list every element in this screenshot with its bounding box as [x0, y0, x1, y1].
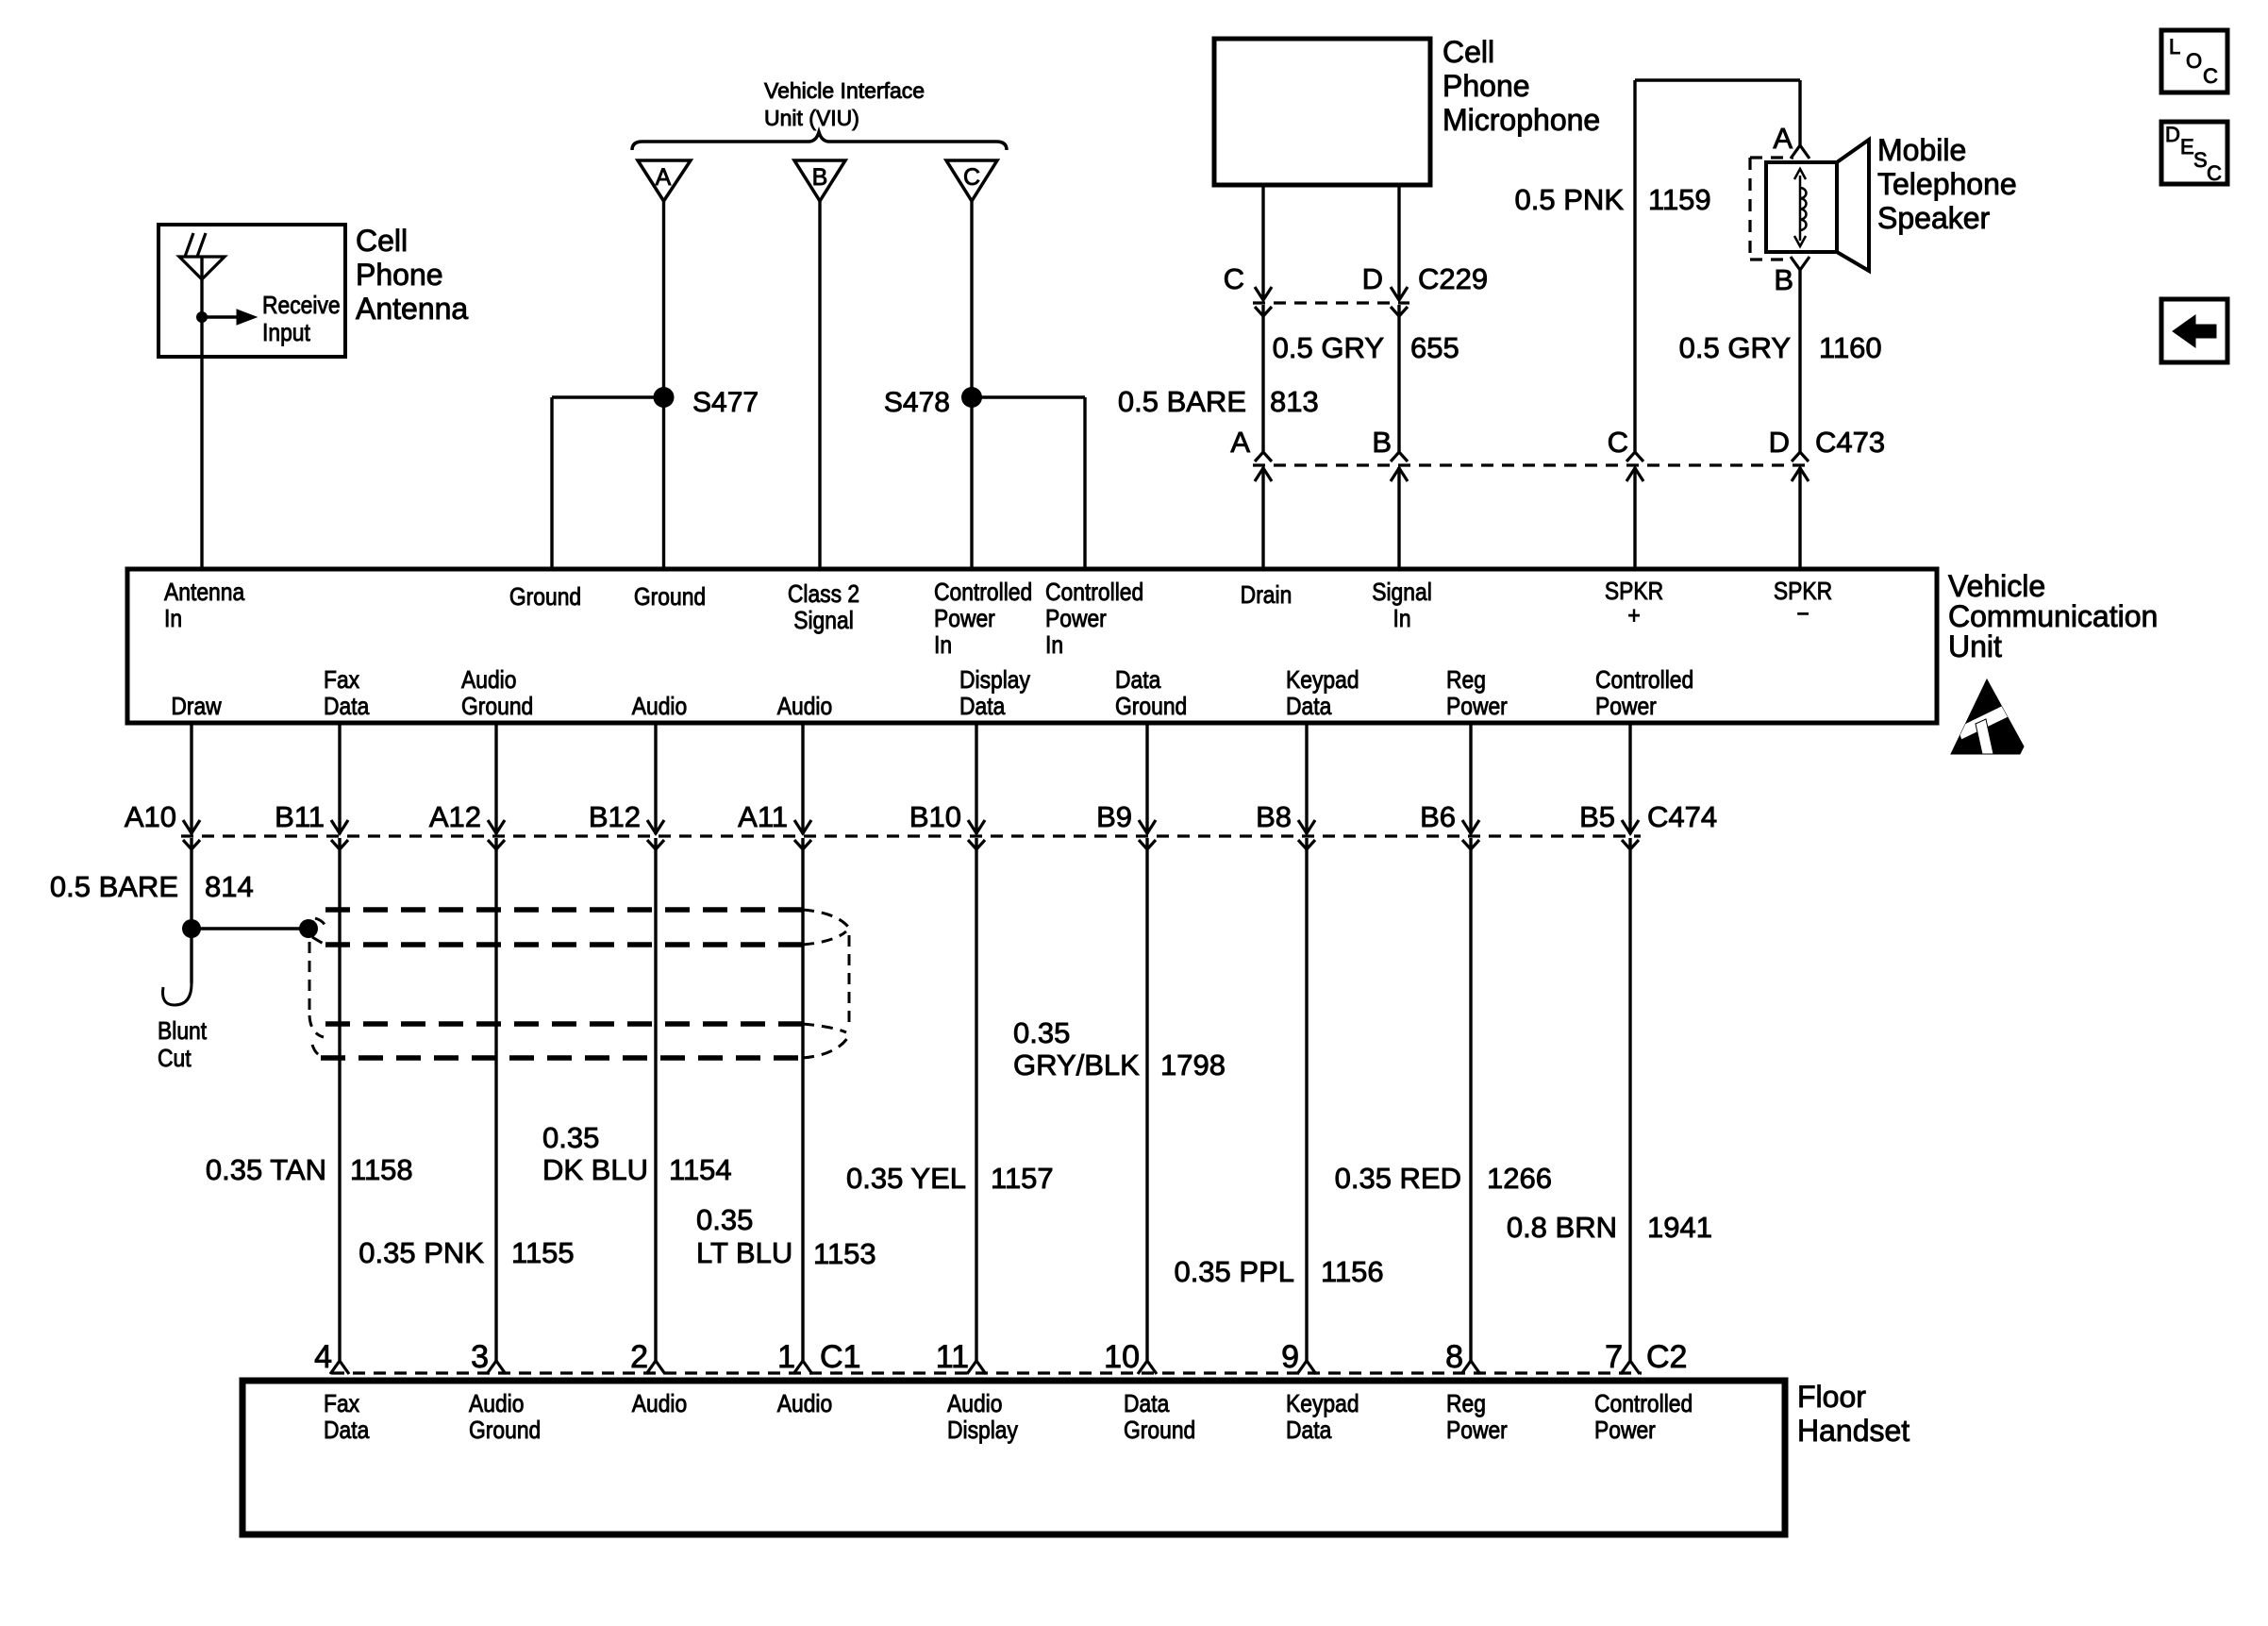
svg-text:Vehicle: Vehicle: [1948, 569, 2045, 603]
wire audio ground VCU to C474: [494, 723, 497, 834]
svg-text:0.35: 0.35: [696, 1203, 753, 1236]
svg-text:In: In: [1045, 632, 1063, 660]
back arrow box: [2161, 299, 2227, 362]
svg-text:0.35 TAN: 0.35 TAN: [206, 1153, 326, 1186]
wire triangle B to class 2 signal pin: [818, 201, 821, 569]
wire drain C473 to VCU: [1261, 467, 1264, 569]
wire drain to shield: [192, 927, 309, 930]
svg-text:1154: 1154: [669, 1153, 732, 1186]
speaker terminal A: [1791, 145, 1809, 159]
connector C229 dashed line: [1253, 301, 1409, 304]
wire data ground C474 to handset: [1145, 838, 1148, 1362]
svg-text:Antenna: Antenna: [164, 579, 245, 607]
svg-text:813: 813: [1270, 385, 1319, 418]
svg-text:0.5 BARE: 0.5 BARE: [50, 870, 178, 903]
wire audio 1 VCU to C474: [654, 723, 657, 834]
svg-text:2: 2: [630, 1339, 648, 1375]
svg-text:A: A: [656, 164, 672, 191]
svg-text:Ground: Ground: [461, 694, 533, 721]
svg-text:C: C: [2203, 64, 2218, 88]
svg-text:1156: 1156: [1321, 1255, 1384, 1288]
wire audio ground C474 to handset: [494, 838, 497, 1362]
svg-text:0.5 BARE: 0.5 BARE: [1118, 385, 1246, 418]
svg-text:0.35 PNK: 0.35 PNK: [359, 1236, 484, 1269]
svg-text:S: S: [2193, 148, 2208, 172]
connector C473 pin A arrows: [1255, 452, 1272, 461]
svg-text:Floor: Floor: [1797, 1380, 1866, 1414]
svg-text:0.5 GRY: 0.5 GRY: [1679, 331, 1791, 364]
svg-text:Data: Data: [1124, 1391, 1170, 1418]
svg-text:7: 7: [1605, 1339, 1623, 1375]
svg-text:B9: B9: [1096, 800, 1132, 833]
svg-text:Audio: Audio: [777, 1391, 832, 1418]
wire antenna to VCU: [200, 357, 203, 569]
svg-text:C: C: [2207, 161, 2222, 185]
svg-text:Ground: Ground: [634, 584, 706, 612]
wire speaker B to C473: [1798, 269, 1801, 452]
svg-text:655: 655: [1410, 331, 1459, 364]
svg-text:8: 8: [1445, 1339, 1463, 1375]
svg-text:In: In: [934, 632, 952, 660]
wire audio 2 C474 to handset: [801, 838, 804, 1362]
wire controlled power VCU to C474: [1628, 723, 1631, 834]
svg-text:C2: C2: [1646, 1339, 1687, 1375]
svg-text:Power: Power: [1045, 606, 1107, 633]
svg-text:In: In: [1392, 606, 1410, 633]
svg-text:A: A: [1773, 122, 1793, 155]
svg-text:Telephone: Telephone: [1877, 167, 2017, 201]
svg-text:C: C: [1608, 426, 1628, 459]
svg-text:4: 4: [314, 1339, 332, 1375]
connector C474 dashed line: [181, 834, 1641, 837]
handset terminal pin 10: [1138, 1361, 1157, 1374]
svg-text:Drain: Drain: [1241, 582, 1292, 610]
wire S477 branch: [552, 395, 664, 398]
svg-text:C474: C474: [1647, 800, 1717, 833]
splice node on drain wire: [182, 919, 201, 938]
svg-text:Data: Data: [324, 1417, 370, 1445]
wire spkr- C473 to VCU: [1798, 467, 1801, 569]
svg-text:Fax: Fax: [324, 667, 359, 695]
shield tube left end: [315, 918, 326, 929]
svg-text:S478: S478: [884, 387, 950, 418]
connector C474 pin A11 arrows: [794, 820, 811, 833]
svg-text:Reg: Reg: [1446, 1391, 1486, 1418]
svg-text:Data: Data: [1286, 694, 1332, 721]
svg-text:Antenna: Antenna: [356, 292, 468, 326]
wire triangle C to controlled power pins: [970, 201, 973, 569]
svg-text:1266: 1266: [1487, 1162, 1552, 1195]
svg-text:Mobile: Mobile: [1877, 133, 1966, 167]
svg-text:C229: C229: [1418, 262, 1488, 295]
svg-text:Audio: Audio: [947, 1391, 1002, 1418]
handset terminal pin 7: [1621, 1361, 1640, 1374]
LOC reference box: [2161, 30, 2227, 92]
svg-text:B10: B10: [909, 800, 961, 833]
svg-text:1155: 1155: [511, 1236, 575, 1269]
svg-text:Power: Power: [1594, 1417, 1656, 1445]
wire controlled power C474 to handset: [1628, 838, 1631, 1362]
svg-text:B: B: [812, 164, 828, 191]
mobile telephone speaker body: [1766, 162, 1837, 252]
wire spkr+ C473 to VCU: [1633, 467, 1636, 569]
connector C473 pin D arrows: [1792, 452, 1809, 461]
svg-text:0.35: 0.35: [542, 1121, 599, 1154]
svg-text:1158: 1158: [350, 1153, 413, 1186]
handset terminal pin 2: [646, 1361, 665, 1374]
svg-text:1941: 1941: [1647, 1211, 1712, 1244]
svg-text:0.35 PPL: 0.35 PPL: [1174, 1255, 1294, 1288]
wire keypad data VCU to C474: [1305, 723, 1308, 834]
svg-text:GRY/BLK: GRY/BLK: [1013, 1048, 1140, 1081]
connector C474 pin B6 arrows: [1462, 820, 1479, 833]
antenna symbol: [179, 257, 225, 279]
svg-text:Keypad: Keypad: [1286, 1391, 1359, 1418]
svg-text:Controlled: Controlled: [1594, 1391, 1693, 1418]
svg-text:0.35 YEL: 0.35 YEL: [846, 1162, 966, 1195]
wire triangle A to ground pins: [662, 201, 665, 569]
svg-text:0.35 RED: 0.35 RED: [1335, 1162, 1461, 1195]
cell phone microphone box: [1214, 39, 1430, 185]
svg-text:Signal: Signal: [1372, 579, 1432, 607]
wire fax data VCU to C474: [338, 723, 341, 834]
svg-text:Microphone: Microphone: [1443, 103, 1600, 137]
svg-text:Power: Power: [1595, 694, 1657, 721]
svg-text:Class 2: Class 2: [788, 581, 859, 609]
svg-text:Ground: Ground: [1115, 694, 1187, 721]
svg-text:Power: Power: [1446, 694, 1508, 721]
wire signal C229 to C473: [1397, 305, 1400, 452]
svg-text:Audio: Audio: [777, 694, 832, 721]
wire signal C473 to VCU: [1397, 467, 1400, 569]
svg-text:Cell: Cell: [1443, 35, 1494, 69]
svg-text:Keypad: Keypad: [1286, 667, 1359, 695]
connector C474 pin B10 arrows: [968, 820, 985, 833]
svg-text:11: 11: [936, 1339, 969, 1375]
wire reg power C474 to handset: [1469, 838, 1472, 1362]
svg-text:Fax: Fax: [324, 1391, 359, 1418]
VIU triangle C: [946, 160, 997, 201]
svg-text:B11: B11: [275, 800, 325, 833]
VIU triangle B: [794, 160, 845, 201]
svg-text:DK BLU: DK BLU: [542, 1153, 648, 1186]
svg-text:Speaker: Speaker: [1877, 201, 1991, 235]
svg-text:Blunt: Blunt: [158, 1018, 207, 1046]
svg-text:0.5 PNK: 0.5 PNK: [1515, 183, 1625, 216]
handset terminal pin 1: [793, 1361, 812, 1374]
svg-text:B12: B12: [589, 800, 641, 833]
svg-text:Vehicle Interface: Vehicle Interface: [764, 78, 925, 103]
svg-text:D: D: [2165, 123, 2180, 146]
connector C474 pin B11 arrows: [331, 820, 348, 833]
connector C474 pin B9 arrows: [1139, 820, 1156, 833]
VIU brace: [632, 132, 1007, 150]
wire fax data C474 to handset: [338, 838, 341, 1362]
handset terminal pin 11: [967, 1361, 986, 1374]
wire display data VCU to C474: [975, 723, 977, 834]
vehicle communication unit box: [127, 569, 1937, 723]
svg-text:Phone: Phone: [1443, 69, 1530, 103]
wire audio 2 VCU to C474: [801, 723, 804, 834]
shield splice node: [299, 919, 318, 938]
svg-text:−: −: [1796, 601, 1809, 629]
svg-text:Controlled: Controlled: [1595, 667, 1693, 695]
connector C473 pin B arrows: [1391, 452, 1408, 461]
splice S477: [654, 387, 675, 408]
connector C474 pin B5 arrows: [1622, 820, 1639, 833]
svg-text:3: 3: [471, 1339, 489, 1375]
svg-text:Input: Input: [262, 320, 310, 347]
svg-text:C1: C1: [820, 1339, 860, 1375]
wire drain C229 to C473: [1261, 305, 1264, 452]
wire spkr- to speaker terminal A: [1798, 80, 1801, 146]
svg-text:Ground: Ground: [509, 584, 581, 612]
svg-text:Audio: Audio: [632, 694, 687, 721]
svg-text:Ground: Ground: [469, 1417, 541, 1445]
antenna RF slashes: [185, 233, 193, 257]
svg-text:+: +: [1627, 603, 1640, 630]
svg-text:Audio: Audio: [632, 1391, 687, 1418]
svg-text:A12: A12: [429, 800, 481, 833]
svg-text:10: 10: [1104, 1339, 1140, 1375]
svg-text:Controlled: Controlled: [934, 579, 1032, 607]
handset terminal pin 9: [1297, 1361, 1316, 1374]
svg-text:C: C: [963, 164, 980, 191]
connector C473 dashed line: [1253, 463, 1810, 466]
wire keypad data C474 to handset: [1305, 838, 1308, 1362]
mobile telephone speaker dashed enclosure: [1748, 158, 1751, 260]
speaker terminal B: [1791, 257, 1809, 270]
wire spkr+ top horizontal: [1635, 78, 1800, 81]
connector C229 pin D arrows: [1391, 287, 1408, 300]
DESC reference box: [2161, 122, 2227, 184]
svg-text:O: O: [2186, 49, 2202, 73]
wire drain to blunt cut: [190, 936, 192, 983]
connector C474 pin A10 arrows: [183, 820, 200, 833]
svg-text:Data: Data: [324, 694, 370, 721]
connector C474 pin A12 arrows: [488, 820, 505, 833]
svg-text:Communication: Communication: [1948, 599, 2158, 633]
shield tube lower inner line: [325, 1021, 803, 1027]
svg-text:Draw: Draw: [171, 694, 222, 721]
svg-text:1798: 1798: [1160, 1048, 1226, 1081]
speaker coil symbol: [1799, 176, 1802, 241]
svg-text:Receive: Receive: [262, 293, 341, 320]
handset terminal pin 3: [487, 1361, 506, 1374]
svg-text:B: B: [1774, 263, 1793, 296]
svg-text:Handset: Handset: [1797, 1414, 1909, 1448]
shield tube right end: [803, 910, 848, 927]
svg-text:1153: 1153: [813, 1237, 876, 1270]
svg-text:D: D: [1362, 262, 1383, 295]
shield tube top line: [325, 907, 803, 913]
receive input arrow: [202, 315, 238, 318]
wire data ground VCU to C474: [1145, 723, 1148, 834]
svg-text:Phone: Phone: [356, 258, 443, 292]
svg-text:1159: 1159: [1648, 183, 1711, 216]
svg-text:Power: Power: [934, 606, 995, 633]
svg-text:0.5 GRY: 0.5 GRY: [1273, 331, 1384, 364]
svg-text:C: C: [1224, 262, 1244, 295]
svg-text:Data: Data: [959, 694, 1006, 721]
svg-text:Display: Display: [947, 1417, 1019, 1445]
svg-text:Ground: Ground: [1124, 1417, 1195, 1445]
wire audio 1 C474 to handset: [654, 838, 657, 1362]
svg-text:B6: B6: [1420, 800, 1456, 833]
svg-text:In: In: [164, 606, 182, 633]
wire mic drain to C229: [1261, 185, 1264, 300]
wire S478 branch: [972, 395, 1085, 398]
svg-text:0.35: 0.35: [1013, 1016, 1070, 1049]
speaker horn: [1837, 140, 1869, 271]
shield tube bottom line: [321, 1055, 803, 1061]
wire draw VCU to C474: [190, 723, 192, 834]
svg-text:1160: 1160: [1819, 331, 1882, 364]
svg-text:Data: Data: [1286, 1417, 1332, 1445]
svg-text:B5: B5: [1579, 800, 1615, 833]
svg-text:E: E: [2180, 135, 2194, 159]
svg-text:D: D: [1769, 426, 1790, 459]
svg-text:LT BLU: LT BLU: [696, 1236, 792, 1269]
svg-text:1157: 1157: [991, 1162, 1054, 1195]
svg-text:Cell: Cell: [356, 224, 408, 258]
svg-text:Reg: Reg: [1446, 667, 1486, 695]
handset terminal pin 4: [330, 1361, 349, 1374]
floor handset box: [242, 1381, 1785, 1534]
connector C473 pin C arrows: [1626, 452, 1643, 461]
node receive input tap: [196, 311, 208, 323]
svg-text:SPKR: SPKR: [1605, 578, 1663, 606]
svg-text:1: 1: [777, 1339, 795, 1375]
wire display data C474 to handset: [975, 838, 977, 1362]
connector C474 pin B8 arrows: [1298, 820, 1315, 833]
svg-text:S477: S477: [692, 387, 759, 418]
svg-text:B8: B8: [1256, 800, 1292, 833]
svg-text:L: L: [2169, 35, 2180, 59]
connector C229 pin C arrows: [1255, 287, 1272, 300]
wire mic signal to C229: [1397, 185, 1400, 300]
svg-text:C473: C473: [1815, 426, 1885, 459]
svg-text:9: 9: [1281, 1339, 1299, 1375]
svg-text:Power: Power: [1446, 1417, 1508, 1445]
svg-text:Cut: Cut: [158, 1046, 192, 1073]
svg-text:Signal: Signal: [793, 608, 854, 635]
svg-text:0.8 BRN: 0.8 BRN: [1507, 1211, 1617, 1244]
svg-text:Unit (VIU): Unit (VIU): [764, 106, 859, 130]
svg-text:Unit: Unit: [1948, 629, 2002, 663]
svg-text:B: B: [1372, 426, 1392, 459]
svg-text:Display: Display: [959, 667, 1031, 695]
connector C474 pin B12 arrows: [647, 820, 664, 833]
shield tube upper inner line: [325, 942, 803, 947]
svg-text:Data: Data: [1115, 667, 1161, 695]
wire reg power VCU to C474: [1469, 723, 1472, 834]
blunt cut hook: [163, 983, 192, 1005]
svg-text:A: A: [1230, 426, 1250, 459]
splice S478: [961, 387, 982, 408]
svg-text:Audio: Audio: [461, 667, 516, 695]
wire draw C474 to splice: [190, 838, 192, 929]
svg-text:A10: A10: [125, 800, 176, 833]
handset terminal pin 8: [1461, 1361, 1480, 1374]
svg-text:814: 814: [205, 870, 254, 903]
cell phone antenna box: [158, 225, 345, 357]
VIU triangle A: [638, 160, 691, 201]
svg-text:A11: A11: [738, 800, 788, 833]
svg-text:Controlled: Controlled: [1045, 579, 1143, 607]
connector C1/C2 dashed line: [332, 1371, 1642, 1374]
svg-text:Audio: Audio: [469, 1391, 524, 1418]
